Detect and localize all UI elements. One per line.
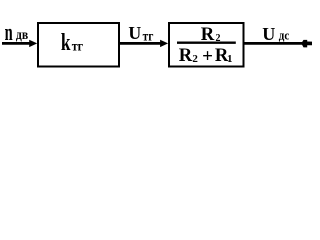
wire input n_dv: [2, 42, 31, 45]
svg-text:U: U: [128, 23, 141, 43]
value label denominator R2+R1: [179, 45, 233, 67]
arrowhead output (blunt plug shape): [301, 40, 312, 48]
svg-text:+: +: [202, 46, 213, 67]
value label k_тг: [61, 28, 83, 56]
wire U_тг from K1 to divider: [119, 42, 162, 45]
arrowhead at divider block: [160, 40, 168, 47]
svg-text:n: n: [5, 19, 13, 46]
svg-text:k: k: [61, 28, 71, 56]
arrowhead input at block K1: [29, 40, 37, 47]
block K1 (tachogenerator gain k_тг): [38, 23, 119, 67]
svg-text:дв: дв: [16, 27, 28, 42]
fraction bar: [177, 42, 236, 44]
svg-text:R: R: [179, 45, 193, 66]
block voltage divider R2/(R2+R1): [169, 23, 244, 67]
wire output U_дс: [244, 42, 303, 45]
svg-text:тг: тг: [72, 37, 84, 53]
svg-text:1: 1: [227, 53, 233, 65]
svg-text:дс: дс: [279, 28, 290, 43]
svg-text:тг: тг: [143, 28, 154, 43]
net label U_тг: [128, 23, 153, 44]
svg-text:U: U: [262, 24, 275, 44]
net label U_дс: [262, 24, 290, 44]
net label n_дв: [5, 19, 29, 46]
value label numerator R2: [201, 24, 221, 45]
svg-text:2: 2: [192, 53, 198, 65]
